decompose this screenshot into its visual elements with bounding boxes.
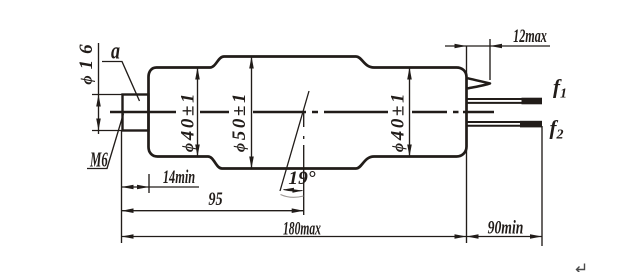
dimension 180max line bbox=[122, 236, 467, 238]
arrowhead 95 right bbox=[292, 208, 304, 213]
dimension 95 line bbox=[122, 210, 304, 212]
arrowhead phi50 up bbox=[249, 57, 254, 69]
wire: spike tip extension line bbox=[489, 39, 491, 80]
arrowhead phi40R up bbox=[407, 68, 412, 80]
spike exhaust tip bbox=[468, 78, 491, 88]
dimension phi40 left line bbox=[197, 68, 199, 156]
wire: right body extension line bbox=[466, 46, 468, 243]
arrowhead phi40L down bbox=[195, 145, 200, 157]
arrowhead 180max right bbox=[455, 234, 467, 239]
svg-text:95: 95 bbox=[208, 188, 222, 209]
svg-text:90min: 90min bbox=[488, 216, 524, 238]
wire: f2 lead end extension line bbox=[541, 126, 543, 246]
body outline of tube bbox=[149, 57, 467, 169]
svg-text:f2: f2 bbox=[550, 116, 564, 143]
arrowhead 14min left bbox=[122, 185, 134, 190]
dimension phi40 right line bbox=[409, 68, 411, 156]
arrowhead 180max left bbox=[122, 234, 134, 239]
arrowhead 90min left bbox=[467, 234, 479, 239]
wire: left extension line from stem bbox=[121, 130, 123, 243]
svg-text:180max: 180max bbox=[283, 219, 321, 240]
svg-text:M6: M6 bbox=[89, 148, 108, 171]
node: centerline dash-dot axis bbox=[110, 111, 494, 114]
leader for label a bbox=[102, 62, 140, 102]
dimension 90min line bbox=[467, 236, 543, 238]
lead f2 bare end bbox=[520, 121, 542, 128]
paragraph return mark bbox=[577, 264, 585, 272]
leader for M6 bbox=[87, 114, 124, 169]
angled electrode line 19deg bbox=[280, 91, 309, 191]
wire: 14min second extension line bbox=[148, 174, 150, 193]
arrowhead angle left bbox=[284, 188, 295, 192]
wire: vertical angle reference line bbox=[303, 112, 305, 215]
svg-text:14min: 14min bbox=[163, 168, 195, 188]
faint angle arc bbox=[281, 195, 304, 198]
svg-text:19°: 19° bbox=[288, 168, 315, 189]
arrowhead 90min right bbox=[530, 234, 542, 239]
arrowhead 12max left bbox=[490, 44, 502, 49]
arrowhead phi50 down bbox=[249, 157, 254, 169]
arrowhead phi16 up bbox=[96, 95, 101, 107]
arrowhead 95 left bbox=[122, 208, 134, 213]
arrowhead phi16 down bbox=[96, 119, 101, 131]
stem M6 stud rectangle bbox=[123, 95, 149, 131]
dimension phi16 lines bbox=[92, 94, 122, 96]
dimension phi50 line bbox=[251, 57, 253, 168]
svg-text:ϕ50±1: ϕ50±1 bbox=[229, 91, 250, 152]
svg-text:ϕ16: ϕ16 bbox=[76, 38, 97, 84]
svg-text:a: a bbox=[111, 37, 120, 64]
angle arc 19deg bbox=[284, 190, 303, 192]
lead f1 bare end bbox=[522, 98, 543, 105]
svg-text:ϕ40±1: ϕ40±1 bbox=[387, 91, 408, 152]
arrowhead 14min right bbox=[137, 185, 149, 190]
svg-text:ϕ40±1: ϕ40±1 bbox=[177, 91, 198, 152]
dimension 12max line bbox=[445, 45, 550, 47]
dimension 14min line bbox=[122, 186, 200, 188]
arrowhead 12max right bbox=[455, 44, 467, 49]
lead f1 wire bbox=[467, 99, 522, 103]
arrowhead phi40L up bbox=[195, 68, 200, 80]
arrowhead angle right bbox=[292, 189, 303, 193]
lead f2 wire bbox=[467, 122, 520, 126]
svg-text:f1: f1 bbox=[553, 75, 567, 102]
arrowhead phi40R down bbox=[407, 145, 412, 157]
svg-text:12max: 12max bbox=[513, 27, 547, 47]
